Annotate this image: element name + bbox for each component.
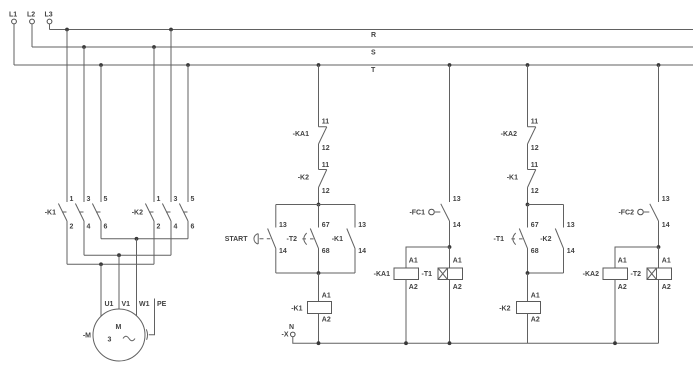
wire to T1 coil bbox=[449, 247, 451, 268]
node box1 bottom bbox=[317, 271, 321, 275]
wire phase U merge (K1 pole1 to K2 pole1) bbox=[67, 263, 154, 265]
NC contact KA2 (pins 11-12) bbox=[528, 119, 539, 170]
svg-text:-K1: -K1 bbox=[507, 175, 518, 182]
node N-K1 bbox=[317, 341, 321, 345]
node T-branch3 bbox=[526, 63, 530, 67]
svg-text:14: 14 bbox=[453, 222, 461, 229]
contactor K1 pole 1 (pins 1-2) bbox=[58, 30, 73, 265]
svg-text:A1: A1 bbox=[409, 258, 418, 265]
coil KA2 (A1-A2) bbox=[603, 258, 628, 291]
svg-text:-X: -X bbox=[282, 331, 289, 338]
svg-text:14: 14 bbox=[279, 248, 287, 255]
contactor K2 pole 1 (pins 1-2) bbox=[145, 47, 160, 264]
node R-K1 bbox=[65, 28, 69, 32]
timed NO contact T1 (pins 67-68) bbox=[519, 205, 538, 274]
svg-text:-M: -M bbox=[83, 333, 91, 340]
svg-text:-KA1: -KA1 bbox=[374, 271, 390, 278]
svg-text:11: 11 bbox=[531, 119, 539, 126]
NC contact K1 (pins 11-12) bbox=[528, 162, 539, 205]
wire KA2 coil to N rail bbox=[614, 280, 616, 344]
bus S bbox=[32, 47, 693, 57]
coil KA1 (A1-A2) bbox=[394, 258, 419, 291]
node T-branch4 bbox=[657, 63, 661, 67]
node N-T1 bbox=[448, 341, 452, 345]
node U1 tap bbox=[99, 262, 103, 266]
node N-KA2 bbox=[613, 341, 617, 345]
node T-branch2 bbox=[448, 63, 452, 67]
svg-text:A2: A2 bbox=[618, 284, 627, 291]
node V1 tap bbox=[117, 253, 121, 257]
wire box3 top rail bbox=[528, 204, 564, 206]
terminal L1 bbox=[9, 12, 17, 24]
node T-K2 bbox=[186, 63, 190, 67]
svg-text:13: 13 bbox=[567, 222, 575, 229]
timer actuator arc T1 bbox=[511, 233, 522, 245]
contactor K1 mechanical link bbox=[62, 211, 101, 213]
node FC1 tee bbox=[448, 245, 452, 249]
svg-text:A2: A2 bbox=[322, 317, 331, 324]
svg-text:U1: U1 bbox=[105, 301, 114, 308]
svg-text:-K2: -K2 bbox=[499, 305, 510, 312]
svg-text:3: 3 bbox=[87, 196, 91, 203]
svg-text:L1: L1 bbox=[9, 12, 17, 19]
wire branch1 from T bus bbox=[318, 65, 320, 127]
wire T1 coil to N rail bbox=[449, 280, 451, 344]
terminal L3 bbox=[45, 12, 53, 24]
node R-K2 bbox=[169, 28, 173, 32]
svg-text:11: 11 bbox=[322, 119, 330, 126]
limit switch FC2 (pins 13-14) bbox=[618, 196, 669, 247]
terminal L2 bbox=[27, 12, 35, 24]
contactor K2 pole 3 (pins 5-6) bbox=[179, 65, 194, 239]
svg-text:-K2: -K2 bbox=[132, 210, 143, 217]
NC contact K2 (pins 11-12) bbox=[319, 162, 330, 205]
wire tee to KA2 coil bbox=[615, 247, 659, 268]
contactor K1 pole 2 (pins 3-4) bbox=[75, 47, 90, 255]
timer actuator arc T2 bbox=[302, 233, 313, 245]
svg-text:13: 13 bbox=[453, 196, 461, 203]
node FC2 tee bbox=[657, 245, 661, 249]
svg-text:START: START bbox=[225, 236, 249, 243]
wire branch3 from T bus bbox=[527, 65, 529, 127]
svg-text:A1: A1 bbox=[662, 258, 671, 265]
svg-text:-KA2: -KA2 bbox=[501, 131, 517, 138]
wire to K1 coil bbox=[318, 273, 320, 302]
svg-text:-KA1: -KA1 bbox=[293, 131, 309, 138]
svg-text:M: M bbox=[116, 324, 122, 331]
svg-text:67: 67 bbox=[322, 222, 330, 229]
svg-text:V1: V1 bbox=[122, 301, 131, 308]
wire K1 coil to N rail bbox=[318, 314, 320, 344]
svg-text:-K1: -K1 bbox=[291, 305, 302, 312]
NO contact K2 (pins 13-14) bbox=[555, 205, 574, 274]
svg-text:L2: L2 bbox=[27, 12, 35, 19]
svg-text:-K1: -K1 bbox=[332, 236, 343, 243]
coil K2 (A1-A2) bbox=[517, 292, 541, 323]
svg-text:3: 3 bbox=[108, 337, 112, 344]
bus T bbox=[14, 65, 693, 74]
svg-text:14: 14 bbox=[358, 248, 366, 255]
svg-text:-K2: -K2 bbox=[298, 175, 309, 182]
svg-text:12: 12 bbox=[322, 145, 330, 152]
wire K2 coil to N rail bbox=[527, 314, 529, 344]
wire branch4 from T bus bbox=[658, 65, 660, 202]
node box1 top bbox=[317, 203, 321, 207]
timer coil T2 (A1-A2) bbox=[647, 258, 672, 291]
bus R bbox=[50, 30, 694, 40]
pushbutton actuator bbox=[254, 234, 270, 244]
wire N rail bbox=[293, 337, 659, 344]
wire phase V merge (K1 pole2 to K2 pole2) bbox=[84, 254, 171, 256]
node N-KA1 bbox=[404, 341, 408, 345]
wire to K2 coil bbox=[527, 273, 529, 302]
wire KA1 coil to N rail bbox=[405, 280, 407, 344]
svg-text:11: 11 bbox=[531, 162, 539, 169]
wire W1 to motor bbox=[136, 239, 138, 316]
coil K1 (A1-A2) bbox=[308, 292, 332, 323]
wire L2 to S bus bbox=[31, 24, 33, 47]
limit switch FC1 (pins 13-14) bbox=[409, 196, 460, 247]
wire tee to KA1 coil bbox=[406, 247, 450, 268]
svg-text:-K2: -K2 bbox=[540, 236, 551, 243]
terminal -X (N) bbox=[282, 324, 296, 338]
wire branch2 from T bus bbox=[449, 65, 451, 202]
svg-text:L3: L3 bbox=[45, 12, 53, 19]
svg-text:13: 13 bbox=[358, 222, 366, 229]
NC contact KA1 (pins 11-12) bbox=[319, 119, 330, 170]
svg-text:5: 5 bbox=[191, 196, 195, 203]
svg-text:-T1: -T1 bbox=[422, 271, 433, 278]
node S-K1 bbox=[82, 45, 86, 49]
svg-text:14: 14 bbox=[662, 222, 670, 229]
svg-text:A1: A1 bbox=[531, 292, 540, 299]
PE frame arc bbox=[146, 329, 147, 340]
svg-text:-T2: -T2 bbox=[631, 271, 642, 278]
svg-text:A1: A1 bbox=[618, 258, 627, 265]
contactor K2 mechanical link bbox=[149, 211, 188, 213]
node box3 bottom bbox=[526, 271, 530, 275]
svg-text:-K1: -K1 bbox=[45, 210, 56, 217]
node W1 tap bbox=[135, 237, 139, 241]
motor terminal labels U1 V1 W1 PE bbox=[105, 301, 167, 308]
NO contact START (pins 13-14) bbox=[268, 205, 287, 274]
contactor K2 pole 2 (pins 3-4) bbox=[162, 30, 177, 256]
timed NO contact T2 (pins 67-68) bbox=[310, 205, 329, 274]
svg-text:12: 12 bbox=[322, 188, 330, 195]
node T-branch1 bbox=[317, 63, 321, 67]
svg-text:3: 3 bbox=[174, 196, 178, 203]
svg-text:67: 67 bbox=[531, 222, 539, 229]
svg-text:1: 1 bbox=[70, 196, 74, 203]
svg-text:13: 13 bbox=[279, 222, 287, 229]
svg-text:-KA2: -KA2 bbox=[583, 271, 599, 278]
svg-text:5: 5 bbox=[104, 196, 108, 203]
motor M1 bbox=[93, 309, 145, 361]
svg-text:W1: W1 bbox=[139, 301, 150, 308]
wire L1 to T bus bbox=[13, 24, 15, 65]
wire PE bbox=[149, 299, 155, 335]
svg-text:A1: A1 bbox=[322, 292, 331, 299]
svg-text:-T1: -T1 bbox=[494, 236, 505, 243]
svg-text:A1: A1 bbox=[453, 258, 462, 265]
svg-text:N: N bbox=[289, 324, 294, 331]
svg-text:-FC2: -FC2 bbox=[618, 210, 634, 217]
svg-text:-FC1: -FC1 bbox=[409, 210, 425, 217]
svg-text:6: 6 bbox=[191, 224, 195, 231]
wire to T2 coil bbox=[658, 247, 660, 268]
svg-text:14: 14 bbox=[567, 248, 575, 255]
svg-text:2: 2 bbox=[70, 224, 74, 231]
wire T2 coil to N rail bbox=[658, 280, 660, 344]
svg-text:6: 6 bbox=[104, 224, 108, 231]
contactor K1 pole 3 (pins 5-6) bbox=[92, 65, 107, 239]
svg-text:4: 4 bbox=[174, 224, 178, 231]
svg-text:R: R bbox=[371, 32, 376, 39]
svg-text:4: 4 bbox=[87, 224, 91, 231]
NO contact K1 (pins 13-14) bbox=[347, 205, 366, 274]
wire L3 to R bus bbox=[49, 24, 51, 30]
wire U1 to motor bbox=[100, 264, 102, 316]
svg-text:A2: A2 bbox=[453, 284, 462, 291]
wire box1 bottom rail bbox=[276, 272, 355, 274]
svg-text:S: S bbox=[371, 50, 376, 57]
svg-text:12: 12 bbox=[531, 145, 539, 152]
svg-text:11: 11 bbox=[322, 162, 330, 169]
svg-text:T: T bbox=[371, 67, 376, 74]
svg-text:A2: A2 bbox=[409, 284, 418, 291]
timer coil T1 (A1-A2) bbox=[438, 258, 463, 291]
wire box1 top rail bbox=[276, 204, 355, 206]
svg-text:1: 1 bbox=[157, 196, 161, 203]
node S-K2 bbox=[152, 45, 156, 49]
svg-text:68: 68 bbox=[322, 248, 330, 255]
svg-text:12: 12 bbox=[531, 188, 539, 195]
svg-text:A2: A2 bbox=[531, 317, 540, 324]
wire box3 bottom rail bbox=[528, 272, 564, 274]
svg-text:13: 13 bbox=[662, 196, 670, 203]
node T-K1 bbox=[99, 63, 103, 67]
svg-text:A2: A2 bbox=[662, 284, 671, 291]
svg-text:PE: PE bbox=[157, 301, 167, 308]
svg-text:2: 2 bbox=[157, 224, 161, 231]
wire V1 to motor bbox=[118, 255, 120, 309]
svg-text:68: 68 bbox=[531, 248, 539, 255]
node box3 top bbox=[526, 203, 530, 207]
svg-text:-T2: -T2 bbox=[287, 236, 298, 243]
wire phase W merge (K1 pole3 to K2 pole3) bbox=[101, 238, 188, 240]
